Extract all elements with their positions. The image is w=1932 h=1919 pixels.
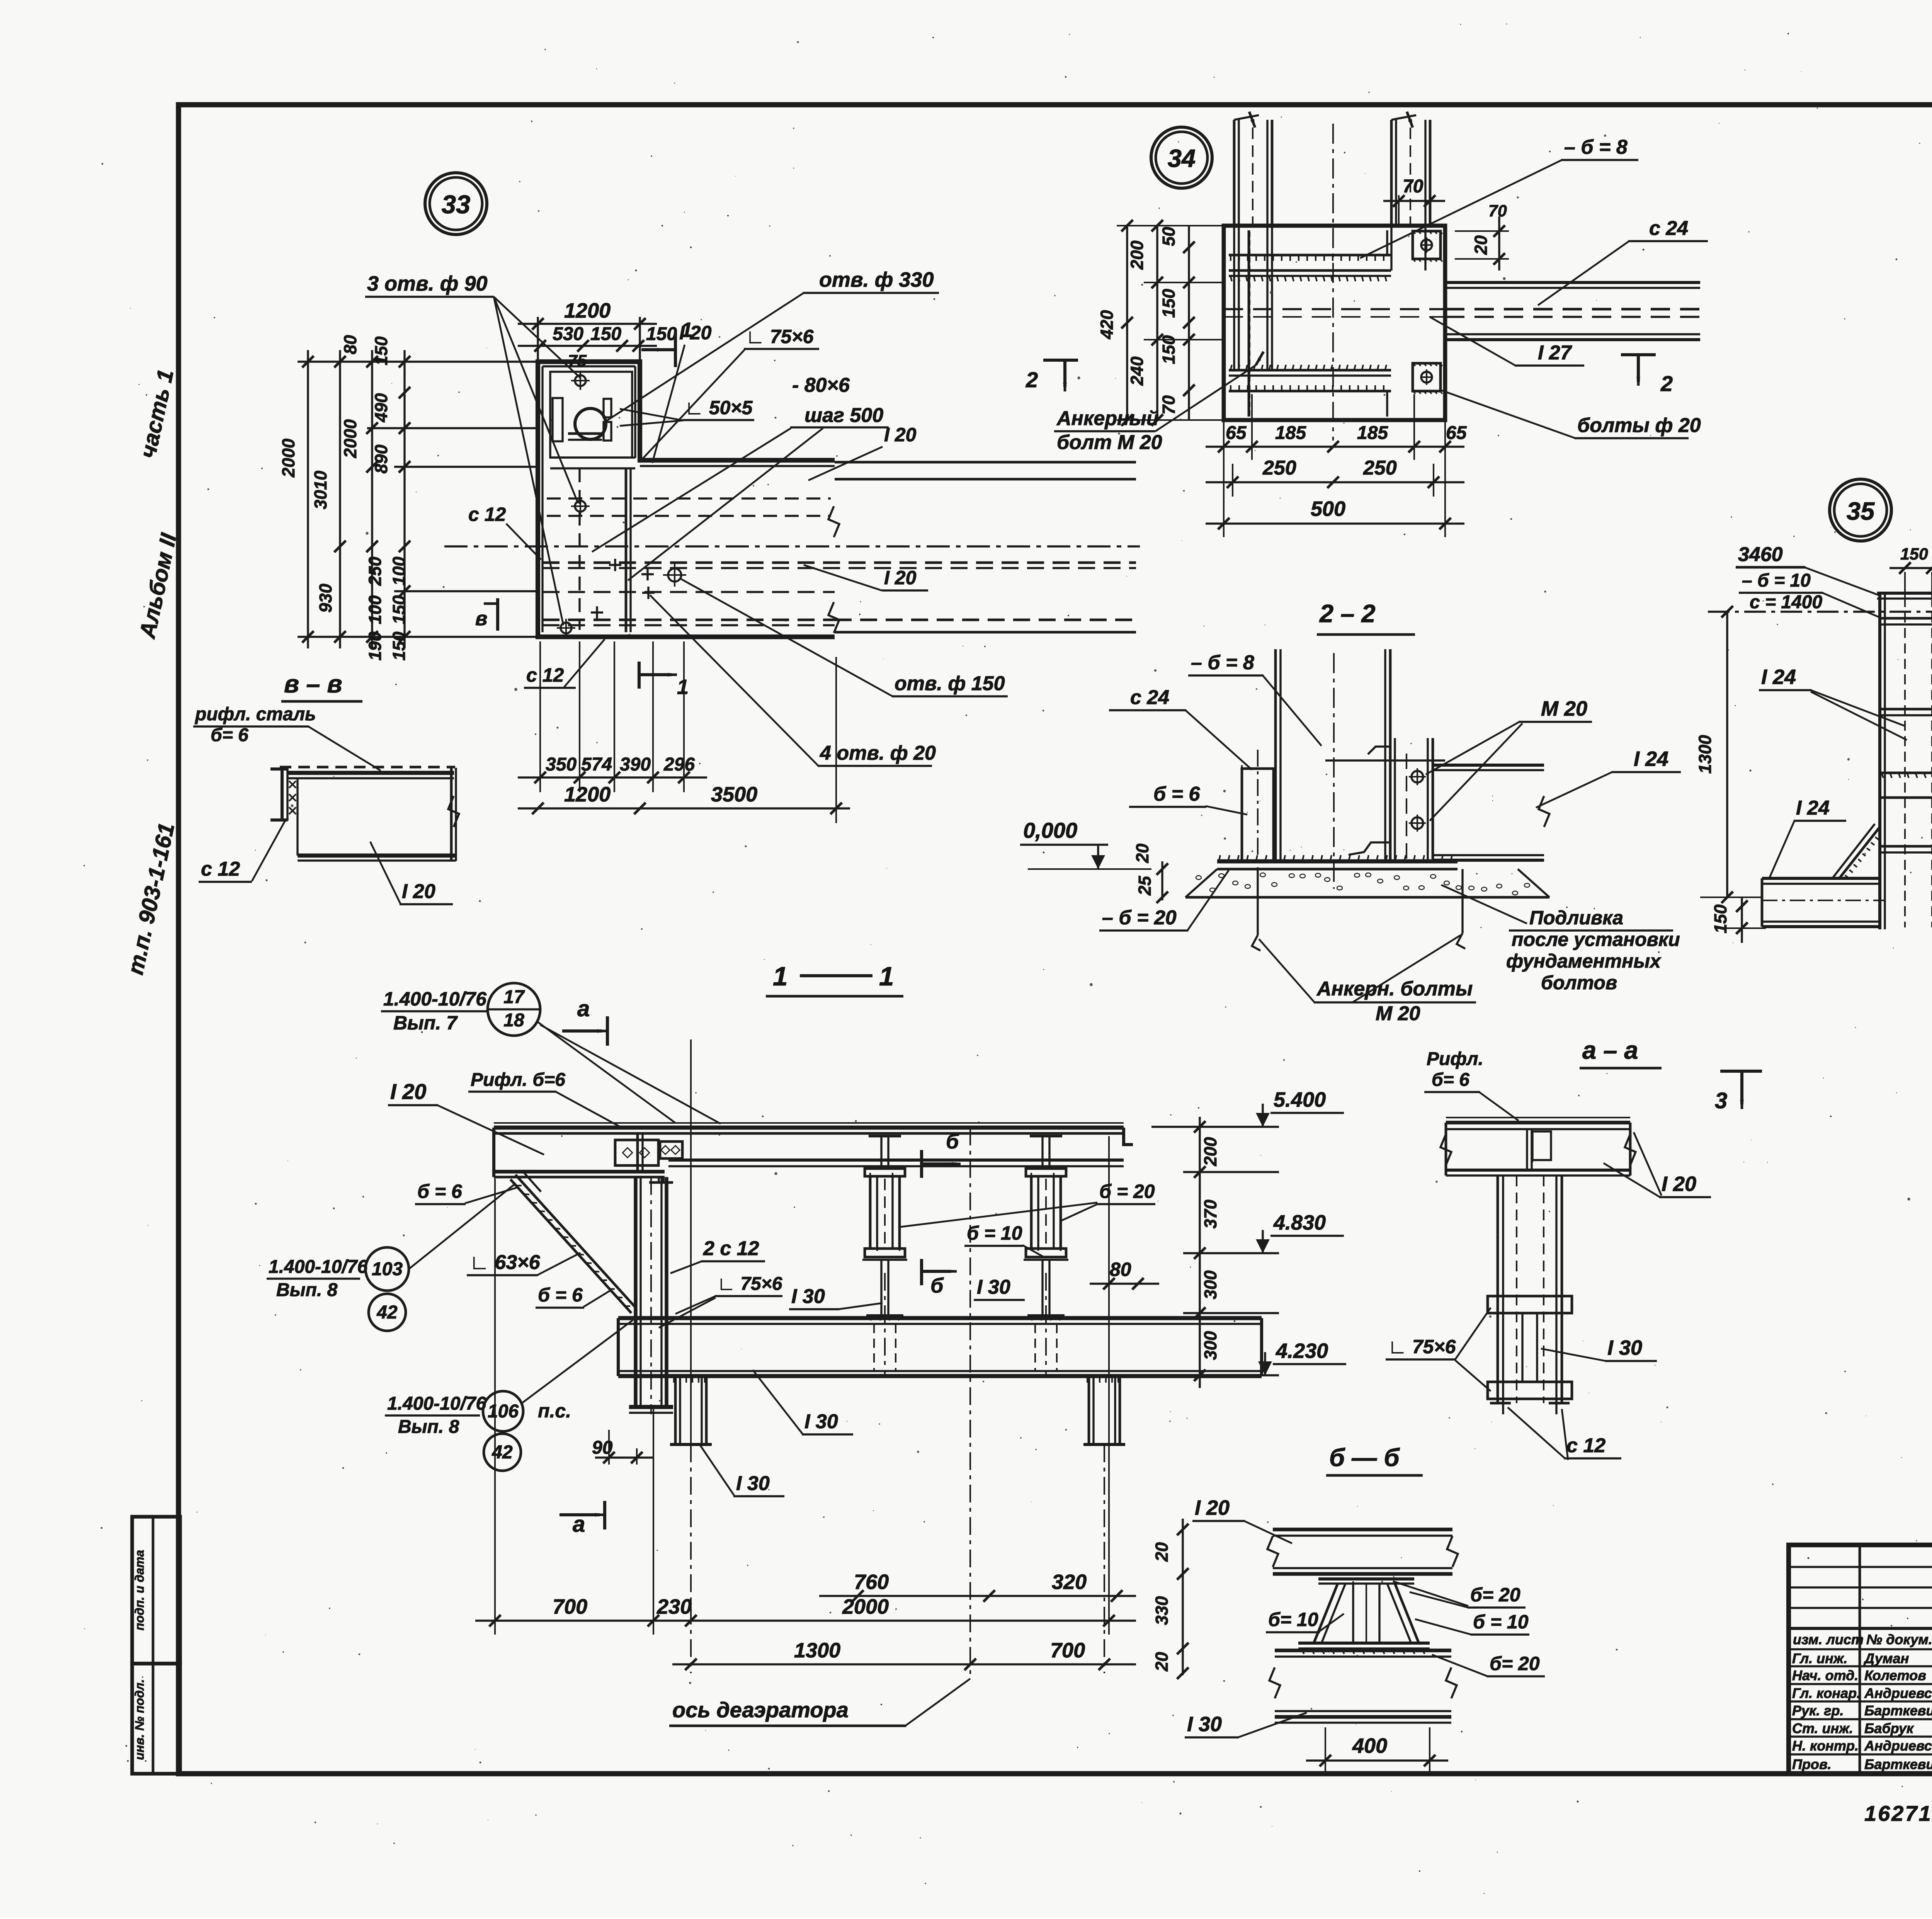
svg-text:Рук. гр.: Рук. гр. [1792,1703,1844,1718]
svg-text:Барткевич: Барткевич [1864,1756,1932,1772]
label c12 a-a [1508,1407,1621,1460]
label I20 a-a [1604,1132,1711,1197]
label ankern bolty M20 [1259,935,1476,1025]
svg-text:в – в: в – в [284,670,342,698]
svg-text:болтов: болтов [1541,972,1617,994]
svg-text:Колетов: Колетов [1864,1667,1926,1683]
svg-text:б= 20: б= 20 [1490,1653,1540,1674]
svg-text:– б = 8: – б = 8 [1191,652,1254,674]
svg-text:2000: 2000 [279,439,298,478]
section 1-1 stub column right [1083,1376,1125,1444]
section mark 2 left [1026,360,1078,392]
svg-text:18: 18 [503,1010,524,1031]
section mark a top [562,996,607,1046]
svg-text:20: 20 [1152,1542,1172,1562]
svg-text:I 30: I 30 [804,1410,838,1433]
title block left grid [1789,1545,1932,1774]
elevation mark 4.830 [1256,1211,1344,1253]
svg-text:изм. лист: изм. лист [1793,1631,1864,1647]
svg-text:17: 17 [503,987,525,1007]
svg-text:2000: 2000 [340,419,360,458]
svg-text:2: 2 [1026,367,1038,392]
section a-a elevation dims [1151,1117,1279,1388]
section mark 3 left [1715,1071,1762,1113]
svg-text:100: 100 [389,556,409,585]
svg-text:530: 530 [553,324,583,344]
section mark 2 right [1621,355,1673,396]
svg-text:I 24: I 24 [1761,665,1796,689]
svg-text:п.с.: п.с. [538,1400,571,1422]
svg-text:4.830: 4.830 [1273,1211,1326,1234]
label angle 75x6 1-1 [659,1274,782,1328]
svg-text:2 – 2: 2 – 2 [1319,599,1376,628]
label c24 detail 34 [1538,217,1708,305]
svg-text:700: 700 [553,1595,587,1618]
section b-b heading [1326,1443,1423,1475]
label b8 detail 34 [1360,136,1638,258]
svg-text:3: 3 [1715,1088,1727,1113]
elevation mark 5.400 [1256,1088,1344,1127]
svg-text:рифл. сталь: рифл. сталь [194,704,316,725]
detail 34 column flanges inside plate [1234,223,1425,369]
section 2-2 beam I24 right [1325,760,1549,860]
section 1-1 heading [766,961,903,996]
section mark a bottom [560,1501,605,1537]
svg-text:Бабрук: Бабрук [1864,1720,1914,1736]
svg-text:– б = 10: – б = 10 [1742,570,1811,591]
label b20 2-2 [1099,870,1229,931]
detail 34 balloon [1151,127,1212,188]
dim 90 1-1 [592,1430,653,1465]
svg-text:65: 65 [1446,423,1467,443]
detail 34 bottom dim chains [1206,394,1467,537]
title block revision rows [1789,1567,1932,1628]
svg-text:1.400-10/76: 1.400-10/76 [383,988,487,1010]
section 1-1 beam I16 [668,1160,1124,1166]
svg-text:Гл. конар.: Гл. конар. [1792,1685,1861,1701]
label os deaeratora 1-1 [669,1679,970,1726]
svg-text:370: 370 [1201,1199,1220,1228]
svg-text:Думан: Думан [1863,1650,1909,1666]
svg-text:I 30: I 30 [736,1472,770,1495]
svg-text:150: 150 [389,631,409,660]
label b6 upper 1-1 [415,1181,519,1204]
svg-text:75: 75 [568,352,587,370]
svg-text:1: 1 [677,675,689,699]
detail 34 base plate plan [1224,226,1445,420]
section 1-1 dim chain 700 230 2000 [475,1595,1136,1626]
label 4 otv f20 [650,595,936,766]
svg-text:∟ 63×6: ∟ 63×6 [469,1251,541,1274]
label angle 75x6 detail 33 [643,326,819,458]
svg-text:185: 185 [1357,423,1388,443]
svg-text:с 12: с 12 [526,664,564,686]
svg-text:Анкерн. болты: Анкерн. болты [1316,978,1473,1000]
svg-text:отв. ф 150: отв. ф 150 [895,672,1005,695]
svg-text:Рифл.: Рифл. [1427,1049,1483,1069]
svg-text:I 30: I 30 [977,1276,1010,1298]
section 1-1 diagonal brace [509,1171,636,1313]
svg-text:I 24: I 24 [1634,747,1668,771]
title block responsible names [1792,1650,1932,1772]
elevation mark 4.230 [1258,1339,1346,1375]
label I27 detail 34 [1430,317,1584,366]
svg-text:930: 930 [316,584,335,612]
svg-text:420: 420 [1097,310,1117,339]
label c24 2-2 [1109,686,1252,770]
svg-text:300: 300 [1201,1270,1220,1299]
label b10 c1400 detail 35 [1739,570,1882,618]
label angle 75x6 a-a [1386,1308,1491,1391]
section 2-2 left stiffener [1242,750,1274,889]
label I30 right 1-1 [974,1276,1025,1300]
svg-text:320: 320 [1052,1570,1087,1594]
svg-text:∟ 75×6: ∟ 75×6 [717,1274,782,1294]
svg-text:б = 10: б = 10 [967,1222,1022,1244]
label c12 v-v [199,819,286,882]
section a-a deck and beam [1440,1118,1636,1176]
svg-text:I 20: I 20 [1195,1496,1230,1519]
svg-text:б= 10: б= 10 [1268,1609,1318,1630]
svg-text:I 20: I 20 [884,424,917,446]
svg-text:Вып. 8: Вып. 8 [276,1280,338,1300]
label I30 b-b [1185,1713,1307,1737]
detail 33 centre axis [444,545,1140,547]
section mark 1 top [641,318,692,367]
svg-text:490: 490 [371,393,391,422]
label I20 top left 1-1 [388,1079,544,1155]
svg-text:65: 65 [1226,423,1247,443]
label otv f330 [605,268,939,422]
section 1-1 main beam I30 [618,1318,1262,1376]
svg-text:296: 296 [663,754,695,775]
svg-text:35: 35 [1847,497,1875,525]
svg-text:I 20: I 20 [402,880,435,903]
svg-text:подп. и дата: подп. и дата [133,1550,146,1630]
svg-text:Андриевская: Андриевская [1864,1685,1932,1701]
svg-text:с 24: с 24 [1130,686,1169,709]
label rifl b6 a-a [1424,1049,1519,1121]
svg-text:1: 1 [879,961,894,991]
detail 34 channel c24 right [1224,282,1702,340]
detail 34 anchor bolt boxes [1413,231,1442,394]
label ankerny bolt M20 [1054,352,1264,454]
section b-b bearing stand [1298,1579,1430,1654]
svg-text:отв. ф 330: отв. ф 330 [819,268,934,291]
section 2-2 heading [1317,599,1415,635]
detail 33 plate outline [538,362,835,637]
section mark v detail 33 [475,598,498,631]
svg-text:∟ 50×5: ∟ 50×5 [685,397,753,419]
label 2c12 [670,1237,765,1273]
svg-text:- 80×6: - 80×6 [792,374,850,396]
title block outer box [1789,1545,1932,1774]
detail 33 beam I20 right [640,462,1136,633]
svg-text:400: 400 [1352,1734,1387,1757]
svg-text:1.400-10/76: 1.400-10/76 [269,1257,368,1277]
label b20 right b-b [1393,1581,1526,1608]
label rifl b6 1-1 [468,1070,620,1127]
svg-text:Рифл. б=6: Рифл. б=6 [471,1070,565,1090]
svg-text:Барткевич: Барткевич [1864,1703,1932,1718]
svg-text:150: 150 [1900,545,1928,563]
svg-text:Вып. 8: Вып. 8 [398,1417,459,1437]
label b10 left b-b [1266,1609,1344,1632]
detail 34 dim 70 top [1383,176,1445,224]
svg-text:2000: 2000 [842,1595,889,1618]
ref mark 103 42 vyp8 [267,1183,516,1331]
svg-text:1200: 1200 [564,783,611,806]
svg-text:а: а [577,996,590,1021]
section v-v heading [281,670,362,701]
section 1-1 dim chain 1300 700 [672,1639,1136,1670]
svg-text:I 20: I 20 [1662,1172,1696,1196]
svg-text:с 24: с 24 [1649,217,1688,240]
svg-text:а – а: а – а [1582,1036,1638,1064]
svg-text:1200: 1200 [564,299,611,322]
svg-text:Анкерный: Анкерный [1056,407,1159,430]
svg-text:I 20: I 20 [884,567,917,589]
section a-a heading [1580,1036,1662,1068]
detail 34 column flanges above base [1234,112,1430,441]
svg-text:с 12: с 12 [1566,1434,1605,1457]
detail 34 dim 70 20 right [1455,202,1509,270]
svg-text:300: 300 [1201,1331,1220,1360]
svg-text:3460: 3460 [1738,543,1783,566]
svg-text:150: 150 [1711,904,1730,933]
svg-text:∟ 75×6: ∟ 75×6 [1388,1336,1456,1358]
svg-text:б = 6: б = 6 [1153,783,1200,805]
svg-text:Гл. инж.: Гл. инж. [1792,1650,1847,1666]
label strip 80x6 step 500 [592,374,889,580]
svg-text:70: 70 [1488,202,1507,220]
detail 35 balloon [1830,479,1891,541]
svg-text:4.230: 4.230 [1276,1339,1328,1363]
label b20 lower b-b [1432,1653,1545,1676]
label I20 at notch [652,322,712,463]
svg-text:с 12: с 12 [468,504,506,525]
archive number 16271-04 62 [1864,1801,1932,1832]
svg-text:М 20: М 20 [1376,1002,1420,1025]
svg-text:106: 106 [488,1401,519,1422]
title block header row text [1793,1631,1932,1647]
svg-text:0,000: 0,000 [1023,818,1077,842]
section b-b left dims [1152,1519,1189,1679]
svg-text:т.п. 903-1-161: т.п. 903-1-161 [123,821,180,977]
section v-v beam I20 body [298,768,459,861]
label I30 lower left [700,1445,784,1496]
section a-a stand [1488,1176,1572,1414]
section 1-1 extension lines [495,1039,1109,1635]
svg-text:б = 10: б = 10 [1473,1611,1529,1633]
left margin rotated text tp 903-1-161 [123,821,180,977]
svg-text:200: 200 [1127,240,1147,270]
detail 33 left dim texts [279,335,409,661]
svg-text:шаг 500: шаг 500 [804,404,883,427]
label 80 right 1-1 [1090,1259,1159,1290]
svg-text:150: 150 [590,324,621,344]
svg-text:250: 250 [1262,457,1296,479]
label I24 bracket detail 35 [1770,797,1846,877]
svg-text:М 20: М 20 [1541,697,1587,720]
svg-text:I 27: I 27 [1538,342,1572,364]
svg-text:б: б [946,1130,959,1153]
svg-text:часть 1: часть 1 [135,367,179,460]
detail 35 top dims 150 150 [1889,545,1932,597]
section 2-2 anchor bolts below [1252,869,1465,951]
label I30 bottom mid [753,1370,853,1434]
label I24 detail 35 [1759,665,1907,740]
section 2-2 column shaft [1276,649,1390,889]
svg-text:I 24: I 24 [1796,797,1830,819]
svg-text:230: 230 [656,1595,692,1618]
svg-text:20: 20 [1471,235,1491,255]
label b6 lower 1-1 [536,1284,611,1308]
svg-text:после установки: после установки [1512,929,1680,950]
svg-text:с = 1400: с = 1400 [1750,592,1822,612]
section 1-1 dim chain 760 320 [819,1570,1136,1602]
svg-text:∟ 75×6: ∟ 75×6 [746,326,814,347]
dim 20 25 left 2-2 [1133,844,1168,903]
ref mark 1.400-10/76 vyp7 circle 17 18 [381,983,721,1124]
svg-text:25: 25 [1135,876,1155,896]
svg-text:Н. контр.: Н. контр. [1792,1738,1859,1754]
svg-text:3500: 3500 [711,783,757,806]
svg-text:I 30: I 30 [791,1285,825,1308]
svg-text:№ докум.: № докум. [1866,1631,1932,1647]
label I20 v-v [370,842,453,904]
section 2-2 grout and foundation [1185,869,1549,897]
svg-text:инв. № подл.: инв. № подл. [133,1679,146,1760]
detail 33 left dim chains [298,350,538,648]
label b10 right b-b [1415,1611,1529,1635]
svg-text:Подливка: Подливка [1529,907,1623,929]
detail 33 top dims [518,299,677,370]
label b8 2-2 [1188,652,1321,746]
label angle 50x5 [620,397,754,426]
svg-text:185: 185 [1275,423,1306,443]
label I24 2-2 [1536,747,1681,808]
svg-text:240: 240 [1127,356,1147,386]
detail 35 deaerator axis [1708,606,1932,618]
detail 33 hole f150 and bolt crosses [591,559,686,619]
label I20 b-b [1192,1496,1292,1543]
svg-text:I 30: I 30 [1607,1336,1642,1359]
svg-text:I 30: I 30 [1187,1713,1222,1736]
label c12 left [468,504,541,560]
svg-text:200: 200 [1201,1137,1220,1166]
svg-text:б= 6: б= 6 [211,725,248,745]
section v-v channel c12 [270,768,296,821]
svg-text:250: 250 [365,556,385,586]
detail 33 bottom dim chain 1 [518,641,707,792]
detail 33 upper box internals [550,372,635,468]
svg-text:фундаментных: фундаментных [1506,950,1662,972]
svg-text:2 с 12: 2 с 12 [703,1237,759,1260]
svg-text:760: 760 [854,1570,889,1594]
label 3 otv f90 [365,272,580,625]
label angle 63x6 [467,1251,580,1275]
svg-text:б = 6: б = 6 [417,1181,463,1202]
svg-text:50: 50 [1159,227,1179,246]
svg-text:Ст. инж.: Ст. инж. [1792,1720,1853,1736]
svg-text:– б = 20: – б = 20 [1102,907,1177,929]
ref mark 106 42 vyp8 ps [385,1320,633,1471]
svg-text:б: б [930,1274,944,1297]
svg-text:103: 103 [372,1259,403,1279]
section 2-2 channel and bolts [1349,738,1433,862]
svg-text:ось деаэратора: ось деаэратора [672,1698,849,1722]
svg-text:3 отв. ф 90: 3 отв. ф 90 [367,272,488,295]
detail 33 bottom dim chain 2 [518,657,850,823]
svg-text:190: 190 [365,631,385,660]
section mark b bottom 1-1 [922,1259,957,1297]
detail 35 dim 150 left bottom [1711,897,1766,943]
svg-text:34: 34 [1168,144,1196,172]
svg-text:16271- 0 4: 16271- 0 4 [1864,1801,1932,1825]
sheet frame [179,105,1932,1774]
detail 35 bottom bracket [1762,824,1932,927]
svg-text:500: 500 [1311,497,1345,521]
detail 35 dim 1300 [1695,612,1762,903]
detail 33 lower hidden beams dashed [543,563,1136,632]
section 1-1 axis lines [691,1128,1104,1677]
svg-text:390: 390 [620,754,651,775]
section v-v deck plate [280,767,455,778]
svg-text:150: 150 [1159,289,1179,318]
section b-b bottom beam I30 [1269,1650,1457,1723]
svg-text:б = 6: б = 6 [538,1284,583,1306]
left margin rotated text chast 1 [135,367,179,460]
svg-text:20: 20 [1133,844,1152,863]
section 1-1 splice stand right [1024,1136,1068,1320]
section mark b top 1-1 [922,1130,961,1178]
label otv f150 [681,579,1008,696]
svg-text:Альбом II: Альбом II [134,531,182,641]
svg-text:42: 42 [376,1302,398,1323]
svg-text:70: 70 [1159,395,1179,415]
svg-text:250: 250 [1363,457,1397,479]
detail 35 column [1877,593,1932,929]
left margin vertical captions [133,1550,146,1760]
svg-text:330: 330 [1152,1596,1172,1625]
section 2-2 base plate [1217,855,1458,869]
label I30 a-a [1541,1336,1657,1361]
label bolty f20 detail 34 [1441,390,1701,438]
detail 34 left dim chains [1097,220,1224,426]
svg-text:150: 150 [389,595,409,624]
svg-text:1300: 1300 [794,1639,840,1662]
label I30 mid 1-1 [789,1285,883,1309]
section b-b dim 400 [1306,1727,1448,1774]
svg-text:80: 80 [1110,1259,1131,1280]
label I20 right beam [808,424,917,480]
left margin rotated text albom II [134,531,182,641]
label podlivka [1441,885,1680,994]
svg-text:I 20: I 20 [679,322,712,344]
svg-text:болт М 20: болт М 20 [1057,431,1162,454]
section 1-1 stub column left [670,1376,712,1444]
section 1-1 beam I20 left [494,1128,673,1182]
svg-text:890: 890 [371,444,391,473]
svg-text:150: 150 [646,324,677,344]
section 1-1 splice plates with bolts [615,1140,682,1165]
svg-text:I 20: I 20 [390,1079,426,1104]
section 1-1 deck plate [494,1123,1133,1145]
label M20 2-2 [1426,697,1592,821]
svg-text:Нач. отд.: Нач. отд. [1792,1667,1858,1683]
svg-text:болты ф 20: болты ф 20 [1577,414,1701,437]
